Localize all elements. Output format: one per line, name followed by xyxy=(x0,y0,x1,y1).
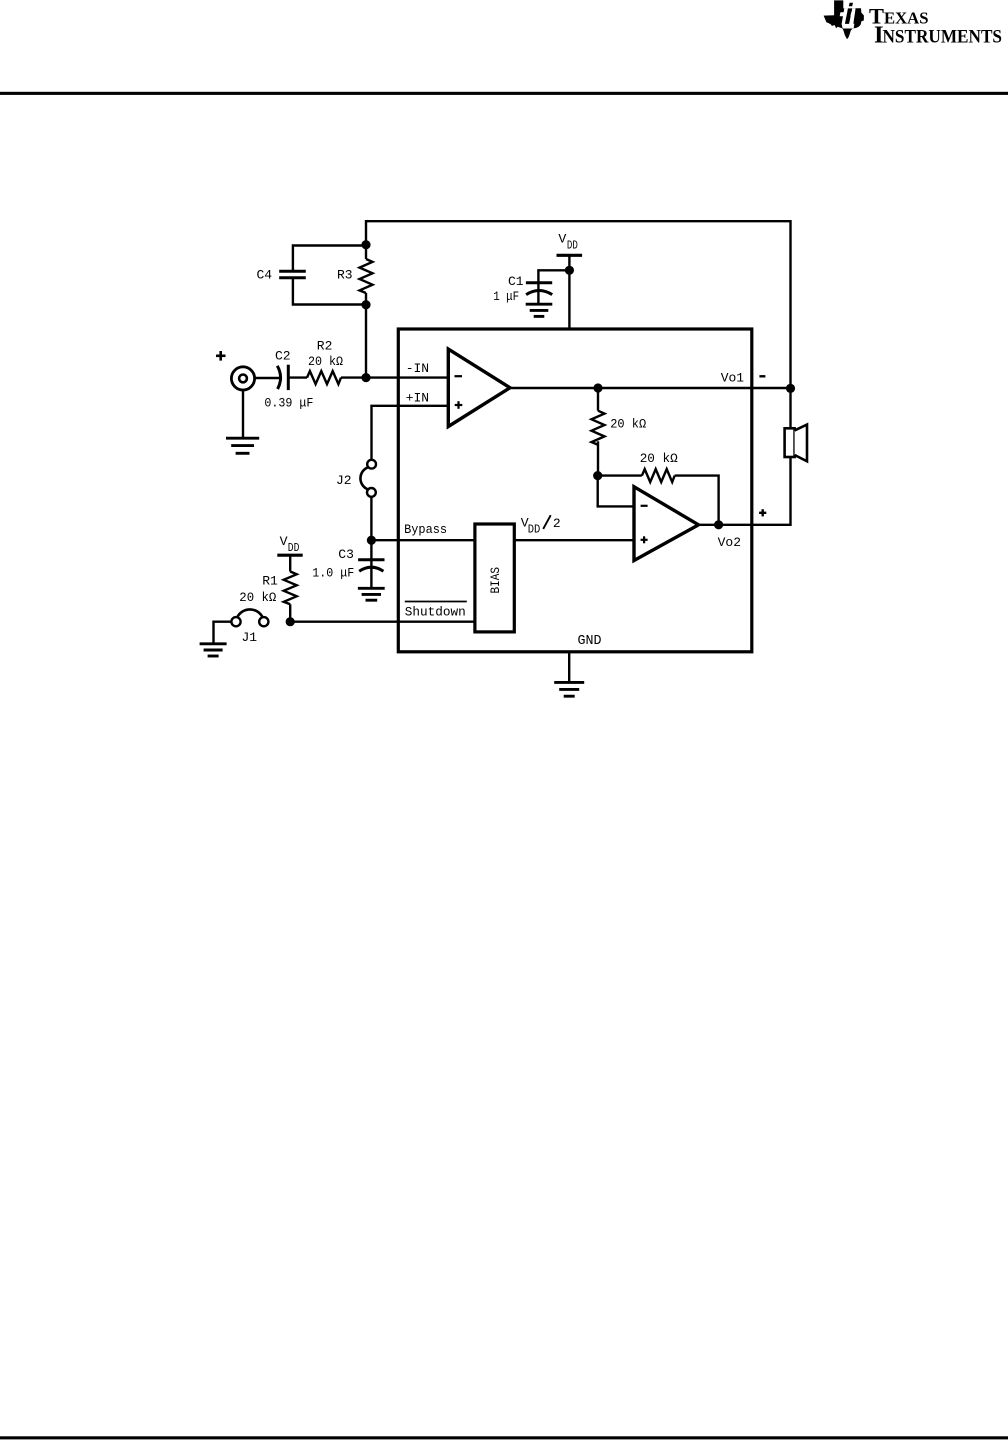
wire jack to C2 xyxy=(255,377,281,379)
IC box U1 xyxy=(398,329,752,652)
wire C4 top branch xyxy=(293,246,366,272)
node dot Vo2 xyxy=(714,520,723,529)
node dot Vo1 internal xyxy=(593,383,602,392)
BIAS block xyxy=(475,524,514,632)
op-amp U1A minus xyxy=(455,375,463,377)
svg-text:20 kΩ: 20 kΩ xyxy=(239,590,276,605)
svg-text:R3: R3 xyxy=(337,268,353,283)
ground J1 xyxy=(200,644,227,656)
wire Vo1 node down to R internal xyxy=(597,388,599,411)
TI logo Texas map xyxy=(824,0,864,39)
wire VDD to IC top xyxy=(568,255,570,329)
svg-text:DD: DD xyxy=(567,238,578,252)
wire R2 to -IN pin xyxy=(341,376,448,378)
wire VDD/2 BIAS to U1B plus xyxy=(514,539,634,541)
svg-text:-IN: -IN xyxy=(406,361,429,376)
svg-text:Shutdown: Shutdown xyxy=(405,604,466,619)
svg-text:DD: DD xyxy=(288,541,300,555)
wire feedback to U1B minus xyxy=(598,476,634,507)
svg-text:J2: J2 xyxy=(336,473,352,488)
svg-text:20 kΩ: 20 kΩ xyxy=(308,354,343,369)
svg-text:C4: C4 xyxy=(257,268,273,283)
op-amp U1B minus xyxy=(641,505,648,507)
capacitor C3 xyxy=(358,558,384,561)
svg-text:C2: C2 xyxy=(275,349,291,364)
svg-text:20 kΩ: 20 kΩ xyxy=(610,417,646,432)
resistor Rf 20k feedback xyxy=(642,469,675,482)
wire U1B output to speaker xyxy=(699,457,791,525)
minus polarity speaker top xyxy=(759,375,765,377)
wire C4 bottom branch xyxy=(293,278,366,305)
svg-text:Bypass: Bypass xyxy=(404,522,447,537)
pin label Shutdown with overline xyxy=(405,601,467,603)
wire top rail left drop to R3 xyxy=(365,220,367,259)
wire C1 branch xyxy=(538,270,569,282)
wire J1 to ground xyxy=(214,622,232,643)
wire Bypass to BIAS xyxy=(371,539,475,541)
svg-text:C3: C3 xyxy=(338,547,354,562)
svg-text:BIAS: BIAS xyxy=(488,567,503,594)
wire VDD bar to R1 xyxy=(289,555,291,571)
wire C2 to R2 xyxy=(288,376,307,378)
wire Rint1 to feedback node xyxy=(597,441,599,475)
plus polarity speaker bottom xyxy=(759,509,766,516)
input jack xyxy=(231,367,254,390)
node dot R3 top xyxy=(361,240,370,249)
svg-text:EXAS: EXAS xyxy=(884,9,929,28)
op-amp U1B xyxy=(634,487,699,561)
svg-text:0.39 μF: 0.39 μF xyxy=(264,396,313,411)
svg-text:J1: J1 xyxy=(242,630,258,645)
svg-text:1.0 μF: 1.0 μF xyxy=(312,565,354,580)
resistor R1 xyxy=(284,572,297,605)
svg-text:DD: DD xyxy=(528,522,541,536)
svg-text:R1: R1 xyxy=(262,574,278,589)
wire R3 bottom to -IN node xyxy=(365,293,367,378)
ground C1 xyxy=(526,304,553,316)
svg-text:1 μF: 1 μF xyxy=(493,289,519,304)
wire top rail xyxy=(366,220,791,222)
op-amp U1A plus xyxy=(455,401,463,409)
resistor R3 xyxy=(360,259,373,293)
node dot J1/R1 xyxy=(286,617,295,626)
node dot feedback xyxy=(593,471,602,480)
op-amp U1A xyxy=(448,349,510,426)
svg-text:V: V xyxy=(280,534,288,549)
wire C1 stem bottom xyxy=(537,283,539,304)
capacitor C2 xyxy=(277,366,280,389)
ground jack xyxy=(226,438,259,453)
resistor Rint1 20k vertical xyxy=(592,411,605,445)
svg-text:20 kΩ: 20 kΩ xyxy=(640,451,678,466)
header rule xyxy=(0,92,1008,95)
svg-text:Vo1: Vo1 xyxy=(721,370,745,385)
wire R1 to shutdown rail xyxy=(289,604,291,621)
svg-text:GND: GND xyxy=(578,633,602,649)
svg-text:NSTRUMENTS: NSTRUMENTS xyxy=(883,27,1003,48)
jumper J2 xyxy=(367,460,376,469)
wire op-amp U1A output to speaker node xyxy=(510,387,791,389)
wire feedback node to Rf xyxy=(598,474,642,476)
plus polarity input xyxy=(216,351,226,361)
node dot R3 bottom xyxy=(361,300,370,309)
node dot Bypass xyxy=(367,536,376,545)
svg-text:R2: R2 xyxy=(317,339,333,354)
svg-text:+IN: +IN xyxy=(406,391,429,406)
speaker LS1 xyxy=(785,428,795,457)
wire J2 to Bypass node xyxy=(370,497,372,540)
capacitor C4 xyxy=(279,271,306,278)
svg-text:V: V xyxy=(558,232,566,247)
svg-text:C1: C1 xyxy=(508,274,524,289)
resistor R2 xyxy=(307,371,341,384)
node dot -IN xyxy=(361,373,370,382)
wire GND pin to ground xyxy=(568,652,570,682)
node dot C1 tap xyxy=(565,266,574,275)
ground GND pin xyxy=(554,682,584,696)
wire +IN xyxy=(372,406,449,460)
wire Rf to Vo2 xyxy=(675,476,719,525)
ground C3 xyxy=(358,588,385,600)
wire C3 stem xyxy=(370,540,372,588)
wire shutdown rail to BIAS xyxy=(290,621,475,623)
wire top rail right drop to Vo1/speaker xyxy=(789,220,791,428)
footer rule xyxy=(0,1436,1008,1439)
node dot Vo1 speaker xyxy=(786,384,795,393)
jumper J1 xyxy=(231,617,240,626)
op-amp U1B plus xyxy=(641,536,648,543)
wire jack ground stem xyxy=(242,390,244,438)
svg-text:2: 2 xyxy=(553,516,561,531)
capacitor C1 xyxy=(526,281,552,284)
svg-text:Vo2: Vo2 xyxy=(718,535,741,550)
